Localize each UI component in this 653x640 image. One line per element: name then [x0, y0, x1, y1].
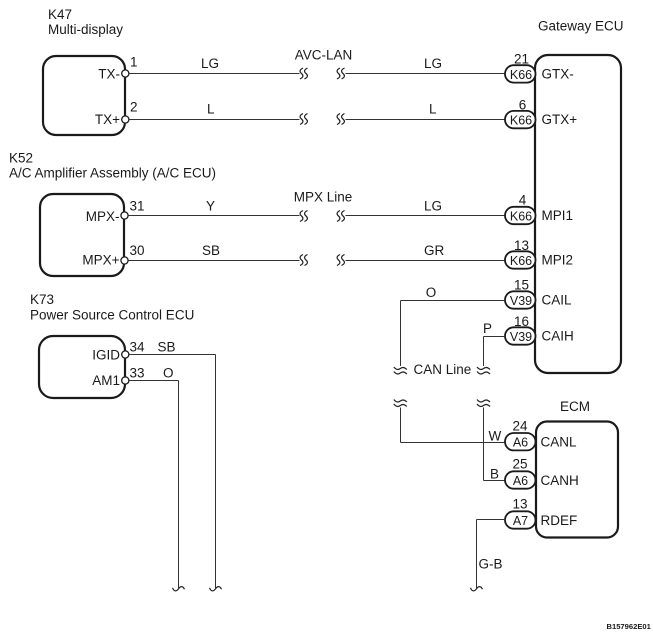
svg-text:RDEF: RDEF	[541, 513, 578, 528]
connector K66 pin 13 (MPI2)	[505, 238, 536, 269]
wire break left on MPX+ wire	[300, 255, 308, 266]
wire CAIL colour O horizontal	[401, 285, 506, 301]
wire end symbol IGID	[210, 587, 222, 591]
svg-text:13: 13	[514, 238, 529, 253]
wire break right on TX+ wire	[337, 114, 345, 125]
connector V39 pin 15 (CAIL)	[505, 278, 536, 309]
wire TX+ to GTX+ right segment, colour L	[346, 102, 506, 120]
svg-text:Multi-display: Multi-display	[48, 22, 123, 37]
svg-text:2: 2	[130, 100, 138, 115]
svg-text:P: P	[483, 321, 492, 336]
svg-text:K66: K66	[510, 209, 532, 223]
pin 34 of K73	[122, 340, 145, 359]
svg-text:MPI1: MPI1	[542, 208, 574, 223]
svg-text:GTX-: GTX-	[542, 67, 574, 82]
wire CANH colour B horizontal	[484, 467, 506, 482]
svg-text:Power Source Control ECU: Power Source Control ECU	[30, 308, 194, 323]
svg-text:IGID: IGID	[92, 348, 120, 363]
svg-text:CAIL: CAIL	[542, 293, 573, 308]
svg-text:W: W	[489, 429, 502, 444]
svg-text:K66: K66	[510, 114, 532, 128]
connector K66 pin 4 (MPI1)	[505, 193, 536, 225]
connector A7 pin 13 (RDEF)	[505, 497, 536, 529]
svg-text:K66: K66	[510, 68, 532, 82]
wire TX- to GTX- left segment, colour LG	[129, 56, 300, 74]
wire break top of CANL wire	[394, 400, 407, 407]
svg-text:O: O	[163, 366, 174, 381]
svg-text:MPX-: MPX-	[86, 209, 120, 224]
svg-text:MPX+: MPX+	[82, 253, 119, 268]
svg-text:6: 6	[519, 98, 527, 113]
wire AM1 colour O horizontal	[129, 366, 179, 381]
pin 1 of K47	[122, 55, 138, 78]
svg-text:G-B: G-B	[479, 557, 503, 572]
ECU K47 Multi-display box	[43, 7, 125, 135]
wire break left on TX- wire	[300, 68, 308, 79]
svg-text:TX+: TX+	[95, 112, 120, 127]
connector K66 pin 21 (GTX-)	[505, 52, 536, 83]
ECU Gateway box	[535, 19, 624, 374]
wire TX+ to GTX+ left segment, colour L	[129, 102, 300, 120]
svg-text:SB: SB	[202, 243, 220, 258]
wire CAIH vertical segment	[483, 337, 485, 367]
svg-text:GTX+: GTX+	[542, 112, 578, 127]
wire MPX+ to MPI2 left segment, colour SB	[128, 243, 299, 261]
wire CAIH colour P horizontal	[483, 321, 505, 337]
wire end symbol RDEF	[471, 587, 483, 591]
svg-text:16: 16	[514, 314, 529, 329]
wire RDEF vertical, colour G-B	[477, 520, 503, 589]
ECU K52 A/C Amplifier Assembly box	[9, 151, 216, 277]
svg-text:CAN Line: CAN Line	[414, 362, 472, 377]
svg-text:K52: K52	[9, 151, 33, 166]
wire CANL vertical segment	[400, 408, 402, 443]
wire TX- to GTX- right segment, colour LG	[346, 56, 506, 74]
svg-text:K73: K73	[30, 292, 54, 307]
svg-text:B157962E01: B157962E01	[607, 622, 652, 631]
svg-text:K47: K47	[48, 7, 72, 22]
svg-text:AM1: AM1	[92, 373, 120, 388]
svg-text:13: 13	[512, 497, 527, 512]
wire MPX- to MPI1 right segment, colour LG	[346, 199, 506, 216]
svg-text:TX-: TX-	[98, 67, 120, 82]
connector A6 pin 25 (CANH)	[505, 457, 536, 489]
wire break right on MPX+ wire	[337, 255, 345, 266]
pin 31 of K52	[121, 199, 145, 220]
svg-text:CANL: CANL	[541, 435, 578, 450]
svg-text:24: 24	[512, 419, 528, 434]
ECU ECM box	[536, 399, 618, 538]
wire RDEF horizontal	[477, 519, 506, 521]
svg-text:33: 33	[130, 366, 145, 381]
pin 30 of K52	[121, 243, 145, 264]
svg-text:34: 34	[130, 340, 146, 355]
svg-text:V39: V39	[510, 330, 532, 344]
svg-text:1: 1	[130, 55, 138, 70]
connector K66 pin 6 (GTX+)	[505, 98, 536, 129]
svg-text:Y: Y	[206, 199, 215, 214]
svg-text:O: O	[426, 285, 437, 300]
svg-text:A/C Amplifier Assembly (A/C EC: A/C Amplifier Assembly (A/C ECU)	[9, 166, 216, 181]
svg-text:A6: A6	[513, 474, 528, 488]
wire break right on TX- wire	[337, 68, 345, 79]
wire IGID colour SB horizontal	[129, 340, 216, 355]
svg-text:AVC-LAN: AVC-LAN	[295, 48, 353, 63]
wire break right on MPX- wire	[337, 211, 345, 222]
wire CANL colour W horizontal	[401, 429, 506, 444]
wire break left on MPX- wire	[300, 211, 308, 222]
wire break top of CANH wire	[477, 400, 490, 407]
wire break bottom of CAIH wire	[477, 367, 490, 374]
svg-text:LG: LG	[424, 56, 442, 71]
svg-text:SB: SB	[158, 340, 176, 355]
svg-text:B: B	[490, 467, 499, 482]
svg-text:A6: A6	[513, 436, 528, 450]
svg-text:30: 30	[130, 243, 145, 258]
wire AM1 vertical segment	[178, 381, 180, 589]
wire CANH vertical segment	[483, 408, 485, 481]
svg-text:CANH: CANH	[541, 473, 579, 488]
svg-text:CAIH: CAIH	[542, 329, 574, 344]
svg-text:MPX Line: MPX Line	[294, 190, 353, 205]
svg-text:21: 21	[514, 52, 529, 67]
svg-text:LG: LG	[201, 56, 219, 71]
wire break bottom of CAIL wire	[394, 367, 407, 374]
svg-text:A7: A7	[513, 514, 528, 528]
svg-text:31: 31	[130, 199, 145, 214]
svg-text:15: 15	[514, 278, 529, 293]
svg-text:ECM: ECM	[560, 399, 590, 414]
svg-text:L: L	[429, 102, 437, 117]
svg-text:V39: V39	[510, 294, 532, 308]
svg-text:GR: GR	[424, 243, 445, 258]
svg-text:4: 4	[519, 193, 527, 208]
svg-text:K66: K66	[510, 254, 532, 268]
wire end symbol AM1	[173, 587, 185, 591]
svg-text:MPI2: MPI2	[542, 253, 574, 268]
connector V39 pin 16 (CAIH)	[505, 314, 536, 345]
svg-text:25: 25	[512, 457, 527, 472]
pin 33 of K73	[122, 366, 145, 385]
wire CAIL vertical segment	[400, 301, 402, 367]
svg-text:LG: LG	[424, 199, 442, 214]
wire MPX+ to MPI2 right segment, colour GR	[346, 243, 506, 261]
wire MPX- to MPI1 left segment, colour Y	[128, 199, 299, 216]
connector A6 pin 24 (CANL)	[505, 419, 536, 451]
pin 2 of K47	[122, 100, 138, 124]
svg-text:Gateway ECU: Gateway ECU	[538, 19, 624, 34]
ECU K73 Power Source Control box	[30, 292, 194, 398]
svg-text:L: L	[207, 102, 215, 117]
wire IGID vertical segment	[215, 355, 217, 589]
wire break left on TX+ wire	[300, 114, 308, 125]
